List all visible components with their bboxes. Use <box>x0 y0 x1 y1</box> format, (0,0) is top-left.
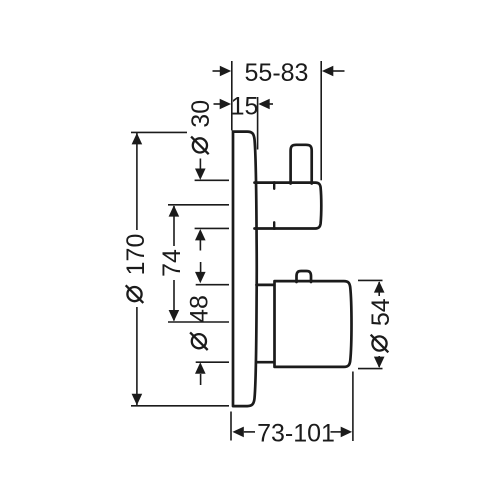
plate (escutcheon side view) <box>233 132 257 407</box>
dim O170 text <box>122 234 150 303</box>
svg-text:30: 30 <box>187 100 215 128</box>
svg-text:73-101: 73-101 <box>257 419 335 447</box>
dim O54 top arrow <box>374 281 385 292</box>
dim O170 extension lines <box>131 131 187 133</box>
dim O54 line <box>378 282 380 296</box>
dim 55-83 left arrow <box>220 66 231 77</box>
svg-text:74: 74 <box>158 249 186 277</box>
dim O30 bottom arrow <box>195 229 206 240</box>
bottom knob body <box>275 281 352 367</box>
top knob stem <box>255 183 275 229</box>
top knob body <box>274 183 321 229</box>
dim O30 text <box>187 100 215 154</box>
svg-text:170: 170 <box>122 234 150 276</box>
dim O48 arrow tails <box>200 262 202 273</box>
dim 73-101 arrow tails <box>244 431 255 433</box>
dim O48 ticks <box>196 284 229 286</box>
dim 55-83 / 15 shared left extension line <box>231 61 233 131</box>
dim O30 ticks <box>195 179 229 181</box>
dim O54 bottom arrow <box>374 357 385 368</box>
dim 55-83 right arrow <box>322 66 333 77</box>
dim 74 bottom arrow <box>169 310 180 321</box>
dim 74 top arrow <box>169 205 180 216</box>
dim O48 text <box>186 295 214 350</box>
top knob seam stubs <box>273 183 275 229</box>
svg-text:15: 15 <box>231 92 259 120</box>
dim 73-101 right arrow <box>341 427 352 438</box>
dim O170 line <box>136 133 138 230</box>
dim O54 text <box>367 298 395 352</box>
dim 15 right extension line <box>257 97 259 150</box>
dim 15 left arrow <box>220 99 231 110</box>
dim O48 bottom arrow <box>195 362 206 373</box>
dim O170 bottom arrow <box>132 394 143 405</box>
dim 15 arrow tails <box>214 103 221 105</box>
dim 74 line <box>173 206 175 246</box>
top knob cap <box>291 145 312 184</box>
dim O170 top arrow <box>132 133 143 144</box>
svg-text:55-83: 55-83 <box>245 59 309 87</box>
arrowheads <box>132 66 385 438</box>
dim O30 top arrow <box>195 169 206 180</box>
dim O30 arrow tails <box>199 159 201 170</box>
dim 73-101 extension lines <box>230 412 232 441</box>
bottom knob stem <box>257 285 277 362</box>
dim O54 ticks <box>358 279 383 281</box>
dimension graphics <box>131 61 383 441</box>
dim 74 ticks <box>168 204 229 206</box>
dim 55-83 arrow tails <box>213 70 221 72</box>
svg-text:54: 54 <box>367 298 395 326</box>
dim O48 top arrow <box>195 272 206 283</box>
dim 73-101 left arrow <box>232 427 243 438</box>
dim 15 right arrow <box>258 99 269 110</box>
dim 55-83 right extension line <box>320 61 322 180</box>
svg-text:48: 48 <box>186 295 214 323</box>
bottom knob button <box>297 271 312 282</box>
